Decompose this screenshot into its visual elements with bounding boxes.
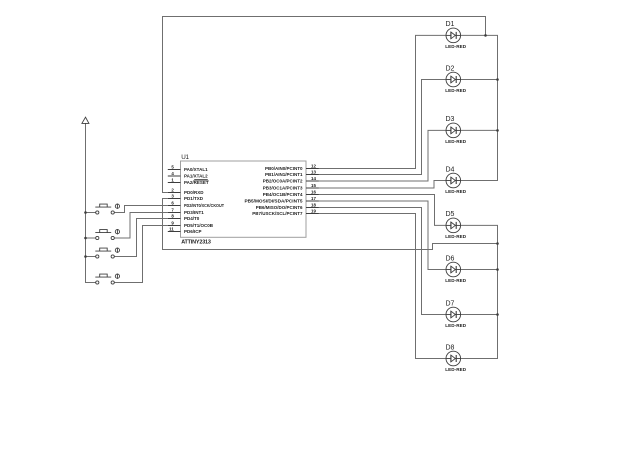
svg-text:19: 19 <box>311 209 316 214</box>
svg-text:LED-RED: LED-RED <box>445 88 466 93</box>
svg-text:PB5/MOSI/DI/SDA/PCINT5: PB5/MOSI/DI/SDA/PCINT5 <box>245 199 304 204</box>
svg-text:LED-RED: LED-RED <box>445 189 466 194</box>
svg-text:D7: D7 <box>446 300 455 307</box>
svg-text:LED-RED: LED-RED <box>445 139 466 144</box>
svg-text:LED-RED: LED-RED <box>445 367 466 372</box>
svg-text:PD3/INT1: PD3/INT1 <box>184 210 204 215</box>
svg-text:PA1/XTAL2: PA1/XTAL2 <box>184 174 208 179</box>
svg-text:PA0/XTAL1: PA0/XTAL1 <box>184 167 208 172</box>
svg-text:PB2/OC0A/PCINT2: PB2/OC0A/PCINT2 <box>263 179 303 184</box>
svg-text:14: 14 <box>311 176 316 181</box>
svg-text:18: 18 <box>311 203 316 208</box>
svg-text:LED-RED: LED-RED <box>445 234 466 239</box>
svg-text:D2: D2 <box>446 65 455 72</box>
svg-text:PD4/T0: PD4/T0 <box>184 216 200 221</box>
svg-text:D3: D3 <box>446 116 455 123</box>
svg-text:D5: D5 <box>446 211 455 218</box>
svg-text:PB0/AIN0/PCINT0: PB0/AIN0/PCINT0 <box>265 166 303 171</box>
svg-text:PB4/OC1B/PCINT4: PB4/OC1B/PCINT4 <box>263 192 303 197</box>
svg-text:D6: D6 <box>446 255 455 262</box>
svg-text:U1: U1 <box>181 154 189 161</box>
svg-text:D1: D1 <box>446 21 455 28</box>
svg-text:PB1/AIN1/PCINT1: PB1/AIN1/PCINT1 <box>265 172 303 177</box>
svg-text:PD5/T1/OC0B: PD5/T1/OC0B <box>184 223 214 228</box>
svg-text:D4: D4 <box>446 166 455 173</box>
svg-text:16: 16 <box>311 190 316 195</box>
svg-text:11: 11 <box>169 227 174 232</box>
svg-text:LED-RED: LED-RED <box>445 44 466 49</box>
svg-text:LED-RED: LED-RED <box>445 278 466 283</box>
svg-text:PD6/ICP: PD6/ICP <box>184 229 202 234</box>
svg-text:PD2/INT0/XCK/CKOUT: PD2/INT0/XCK/CKOUT <box>184 203 224 208</box>
svg-text:PB7/USCK/SCL/PCINT7: PB7/USCK/SCL/PCINT7 <box>252 211 303 216</box>
svg-text:PA2/RESET: PA2/RESET <box>184 180 209 185</box>
svg-text:12: 12 <box>311 164 316 169</box>
svg-text:17: 17 <box>311 196 316 201</box>
svg-text:D8: D8 <box>446 344 455 351</box>
svg-text:LED-RED: LED-RED <box>445 323 466 328</box>
svg-text:PB3/OC1A/PCINT3: PB3/OC1A/PCINT3 <box>263 186 303 191</box>
svg-text:15: 15 <box>311 183 316 188</box>
svg-text:ATTINY2313: ATTINY2313 <box>181 240 211 246</box>
svg-text:PB6/MISO/DO/PCINT6: PB6/MISO/DO/PCINT6 <box>256 205 303 210</box>
svg-text:PD0/RXD: PD0/RXD <box>184 190 204 195</box>
svg-text:PD1/TXD: PD1/TXD <box>184 196 204 201</box>
svg-text:13: 13 <box>311 170 316 175</box>
